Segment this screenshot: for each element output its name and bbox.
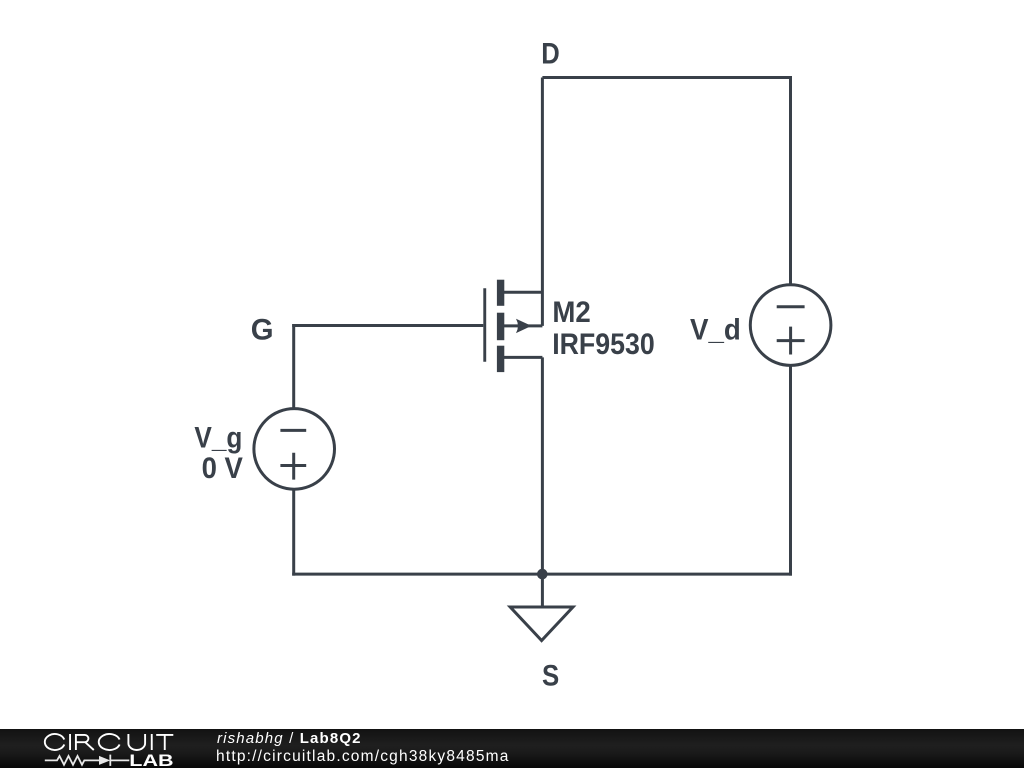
wire drain vertical to transistor (541, 78, 544, 326)
svg-text:IRF9530: IRF9530 (552, 328, 655, 361)
svg-text:D: D (541, 38, 560, 71)
voltage source V_g (254, 409, 335, 490)
svg-text:G: G (251, 313, 274, 346)
footer URL (216, 748, 510, 766)
svg-text:LAB: LAB (129, 751, 173, 768)
wire left vertical upper (292, 324, 295, 408)
voltage source V_d (750, 285, 831, 366)
svg-text:S: S (542, 660, 559, 693)
wire right vertical upper (789, 76, 792, 285)
logo resistor-diode motif (45, 755, 130, 766)
wire right vertical lower (789, 366, 792, 576)
footer title rishabhg / Lab8Q2 (217, 730, 362, 747)
wire source vertical from transistor (541, 357, 544, 574)
junction dot (537, 569, 548, 580)
svg-text:0 V: 0 V (202, 452, 243, 485)
wire bottom rail (292, 573, 792, 576)
wire left vertical lower (292, 490, 295, 576)
svg-text:V_g: V_g (194, 421, 242, 454)
transistor M2 PMOS (485, 280, 543, 372)
CircuitLab logo (0, 729, 200, 768)
svg-text:V_d: V_d (690, 313, 741, 346)
wire gate horizontal (292, 324, 483, 327)
wire top D rail (542, 76, 790, 79)
footer bar (0, 729, 1024, 768)
ground (510, 574, 573, 641)
svg-text:M2: M2 (552, 296, 590, 329)
